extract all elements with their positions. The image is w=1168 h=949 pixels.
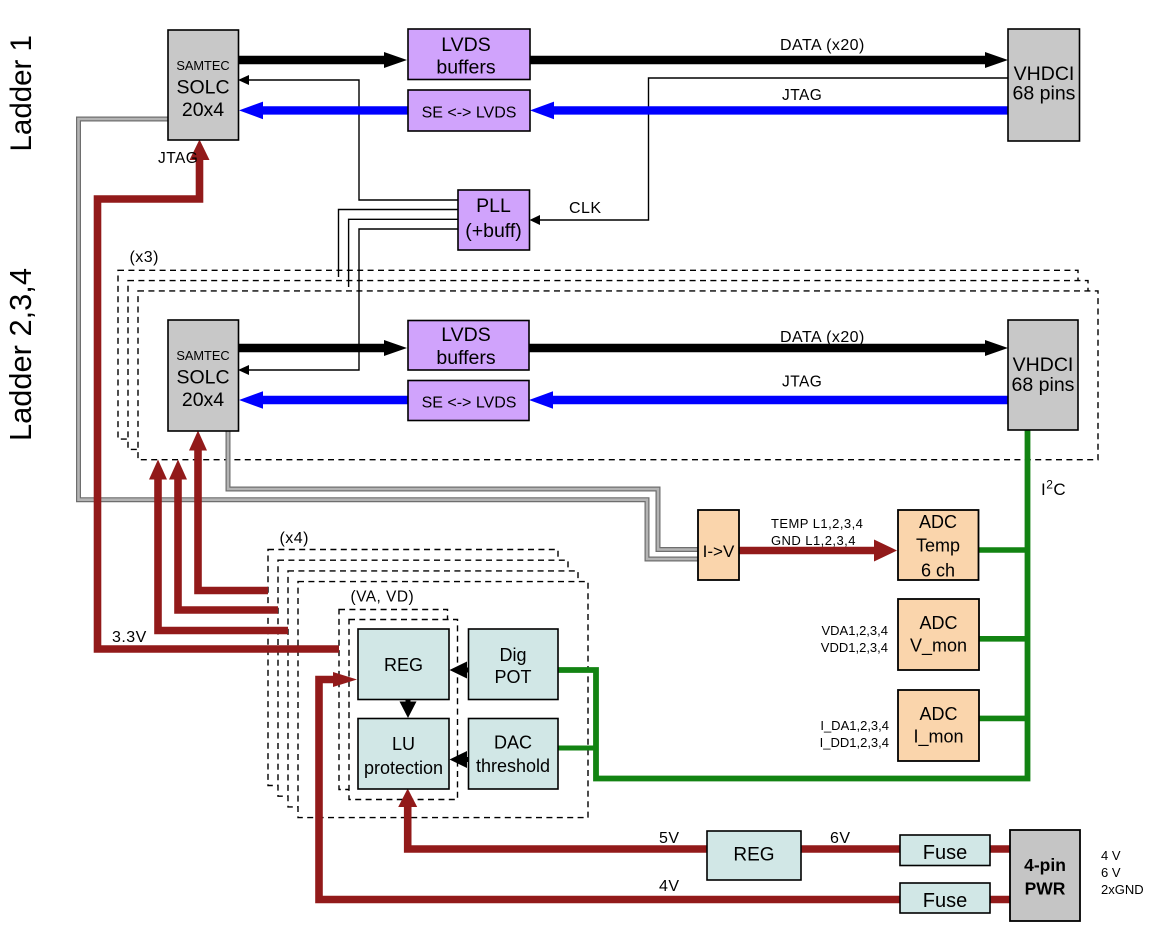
protection LU protection	[358, 719, 449, 790]
svg-text:SOLC: SOLC	[176, 367, 229, 389]
connector VHDCI 68 pins ladder1	[1008, 29, 1080, 141]
buffer LVDS buffers ladder1	[408, 29, 530, 80]
svg-text:VHDCI: VHDCI	[1013, 354, 1074, 376]
svg-text:2xGND: 2xGND	[1101, 882, 1144, 897]
wire blue JTAG SE converter to SOLC1	[261, 106, 408, 114]
svg-text:5V: 5V	[659, 830, 679, 847]
digital pot Dig POT	[469, 629, 559, 700]
connector 4-pin PWR	[1010, 830, 1080, 921]
converter SE to LVDS ladder1	[408, 90, 530, 131]
adc ADC I_mon	[898, 690, 979, 761]
wire gray sense from SOLC1 to I-V	[79, 119, 699, 559]
svg-text:PLL: PLL	[476, 195, 511, 217]
svg-text:threshold: threshold	[476, 756, 550, 776]
wire red temperature sense I-V to ADC Temp	[739, 547, 876, 555]
adc ADC V_mon	[898, 599, 979, 670]
wire PLL clock out to hidden ladder copy 1	[339, 210, 459, 278]
connector SOLC ladder1 SAMTEC 20x4	[168, 30, 239, 140]
svg-text:6 ch: 6 ch	[921, 561, 955, 581]
svg-text:LU: LU	[392, 734, 415, 754]
wire red fuse1 to PWR	[990, 845, 1010, 853]
wire red 5V feed to LU protection	[408, 806, 707, 849]
svg-text:(+buff): (+buff)	[465, 220, 522, 242]
dashed enclosure regulator copies box 2	[278, 560, 568, 796]
svg-text:JTAG: JTAG	[782, 87, 822, 104]
dashed enclosure regulator copies box 1	[268, 550, 558, 786]
wire green I2C stub ADC V_mon	[978, 636, 1027, 642]
wire black DATA LVDS buffers to VHDCI2	[529, 344, 986, 352]
svg-text:POT: POT	[494, 667, 531, 687]
svg-text:4-pin: 4-pin	[1024, 855, 1066, 875]
wire blue JTAG SE converter to SOLC2	[261, 396, 408, 404]
svg-text:protection: protection	[364, 758, 443, 778]
svg-text:68 pins: 68 pins	[1013, 83, 1076, 105]
fuse Fuse 6V	[900, 835, 990, 866]
arrow Dig POT to REG	[450, 662, 469, 679]
dashed enclosure VA VD box 2	[349, 620, 458, 800]
svg-text:TEMP L1,2,3,4: TEMP L1,2,3,4	[771, 516, 863, 531]
converter I to V	[698, 510, 739, 580]
svg-text:6 V: 6 V	[1101, 865, 1121, 880]
svg-text:VDA1,2,3,4: VDA1,2,3,4	[822, 623, 889, 638]
svg-text:ADC: ADC	[919, 704, 957, 724]
wire red 3.3V to hidden ladder copy arrow 2	[178, 478, 278, 610]
svg-text:JTAG: JTAG	[782, 374, 822, 391]
converter SE to LVDS ladder2	[408, 381, 529, 421]
pll PLL +buff	[458, 190, 530, 250]
wire PLL clock out to SOLC ladder2	[249, 229, 458, 370]
svg-text:DATA (x20): DATA (x20)	[780, 329, 865, 346]
buffer LVDS buffers ladder2	[408, 321, 529, 371]
wire green I2C stub DAC threshold	[558, 746, 596, 751]
svg-text:6V: 6V	[830, 830, 850, 847]
svg-text:SAMTEC: SAMTEC	[176, 58, 229, 73]
svg-text:CLK: CLK	[569, 200, 601, 217]
wire red 4V feed to REG	[319, 680, 900, 900]
fuse Fuse 4V	[900, 883, 990, 913]
wire PLL clock out to hidden ladder copy 2	[349, 219, 458, 287]
wire PLL clock out to SOLC ladder1	[249, 80, 458, 200]
svg-text:ADC: ADC	[919, 613, 957, 633]
wire red JTAG 3.3V main to SOLC1	[98, 158, 340, 649]
wire red fuse2 to PWR	[990, 896, 1010, 904]
wire red 3.3V to hidden ladder copy arrow 1	[158, 478, 288, 631]
svg-text:Fuse: Fuse	[923, 890, 967, 912]
svg-text:LVDS: LVDS	[441, 324, 491, 346]
svg-text:ADC: ADC	[919, 512, 957, 532]
svg-text:I_mon: I_mon	[913, 727, 963, 748]
dac DAC threshold	[469, 719, 559, 790]
svg-text:buffers: buffers	[436, 57, 496, 79]
svg-text:(x4): (x4)	[280, 530, 309, 547]
svg-text:VDD1,2,3,4: VDD1,2,3,4	[821, 640, 888, 655]
wire CLK from VHDCI1 to PLL	[539, 78, 1008, 220]
svg-text:V_mon: V_mon	[910, 636, 967, 657]
svg-text:4 V: 4 V	[1101, 848, 1121, 863]
adc ADC Temp 6 ch	[898, 510, 979, 581]
regulator REG power 6V to 5V	[707, 831, 801, 880]
wire red 3.3V to SOLC2	[198, 449, 268, 591]
wire blue JTAG VHDCI1 to SE converter	[552, 106, 1008, 114]
dashed enclosure regulator copies box 4	[298, 582, 588, 818]
dashed enclosure ladder copies box 3	[138, 291, 1098, 460]
wire black DATA SOLC2 to LVDS buffers ladder2	[239, 344, 385, 352]
svg-text:SAMTEC: SAMTEC	[176, 348, 229, 363]
svg-text:4V: 4V	[659, 878, 679, 895]
svg-text:SOLC: SOLC	[176, 77, 229, 99]
svg-text:LVDS: LVDS	[441, 34, 491, 56]
svg-text:20x4: 20x4	[182, 389, 224, 411]
svg-text:68 pins: 68 pins	[1012, 374, 1075, 396]
wire black DATA SOLC1 to LVDS buffers	[238, 56, 385, 64]
svg-text:JTAG: JTAG	[158, 150, 198, 167]
svg-text:Ladder 2,3,4: Ladder 2,3,4	[3, 268, 38, 441]
svg-text:GND L1,2,3,4: GND L1,2,3,4	[771, 533, 856, 548]
svg-text:I_DD1,2,3,4: I_DD1,2,3,4	[820, 735, 889, 750]
svg-text:SE <-> LVDS: SE <-> LVDS	[422, 395, 517, 412]
svg-text:(VA, VD): (VA, VD)	[351, 589, 415, 606]
arrow REG to LU protection	[400, 700, 417, 719]
arrow DAC threshold to LU protection	[450, 751, 469, 768]
dashed enclosure regulator copies box 3	[288, 571, 578, 807]
svg-text:REG: REG	[733, 845, 774, 866]
wire gray sense from SOLC2 to I-V	[228, 431, 698, 550]
svg-text:(x3): (x3)	[130, 249, 159, 266]
wire green I2C stub ADC I_mon	[978, 716, 1027, 722]
svg-text:buffers: buffers	[436, 347, 496, 369]
svg-text:REG: REG	[384, 655, 423, 675]
wire red 6V REG to fuse1	[801, 845, 900, 853]
dashed enclosure ladder copies box 1	[118, 270, 1078, 439]
svg-text:I2C: I2C	[1041, 478, 1066, 500]
svg-text:DAC: DAC	[494, 733, 532, 753]
dashed enclosure VA VD box 1	[339, 610, 448, 790]
svg-text:3.3V: 3.3V	[112, 629, 147, 646]
svg-text:Dig: Dig	[499, 645, 526, 665]
wire blue JTAG VHDCI2 to SE converter ladder2	[551, 396, 1008, 404]
connector VHDCI 68 pins ladder2	[1008, 320, 1078, 430]
svg-text:SE <-> LVDS: SE <-> LVDS	[422, 105, 517, 122]
wire green I2C stub ADC Temp	[978, 547, 1027, 553]
dashed enclosure ladder copies box 2	[128, 281, 1088, 450]
svg-text:Ladder 1: Ladder 1	[5, 35, 38, 151]
wire green I2C bus main	[558, 430, 1028, 779]
svg-text:20x4: 20x4	[182, 99, 224, 121]
svg-text:I_DA1,2,3,4: I_DA1,2,3,4	[820, 718, 889, 733]
wire black DATA LVDS buffers to VHDCI1	[530, 56, 986, 64]
svg-text:PWR: PWR	[1025, 879, 1066, 899]
connector SOLC ladder2 SAMTEC 20x4	[168, 320, 239, 431]
regulator REG in VA VD block	[358, 629, 449, 700]
svg-text:DATA (x20): DATA (x20)	[780, 37, 865, 54]
svg-text:I->V: I->V	[703, 542, 735, 561]
svg-text:Fuse: Fuse	[923, 842, 967, 864]
svg-text:Temp: Temp	[916, 536, 960, 556]
